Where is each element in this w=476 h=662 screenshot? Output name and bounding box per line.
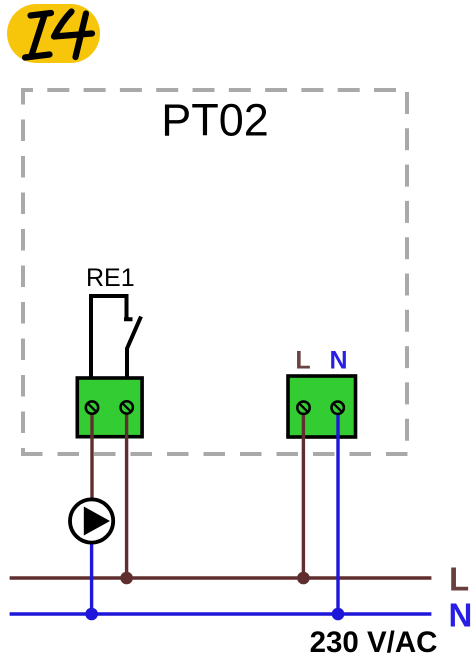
svg-text:N: N [329,347,347,375]
dashed module boundary box PT02 (top edge) [21,88,409,92]
label L (mains line) [449,561,469,598]
wire right terminal L to L line (brown) [302,408,305,578]
L supply line (brown) [10,576,432,579]
wire pump to N line (blue) [90,540,93,614]
svg-text:PT02: PT02 [161,95,269,146]
wire right terminal N to N line (blue) [336,408,339,614]
wire relay terminal 2 to L line (brown) [125,408,128,578]
junction dot right terminal L wire on L line [297,572,310,585]
screw terminal X2-N [332,402,344,414]
svg-text:230 V/AC: 230 V/AC [310,626,438,657]
wire relay terminal 1 to pump (brown) [90,408,93,501]
pump M1 (circle with triangle) [70,499,113,542]
svg-text:RE1: RE1 [86,264,135,292]
junction dot relay wire on L line [120,572,133,585]
svg-text:N: N [449,597,473,634]
label 230 V/AC [310,626,438,659]
label RE1 [86,264,135,292]
screw terminal X1-1 [86,401,98,413]
terminal block X1 (relay output, green) [77,378,142,437]
N supply line (blue) [10,612,432,615]
screw terminal X1-2 [121,401,133,413]
screw terminal X2-L [297,402,309,414]
junction dot pump wire on N line [85,608,98,621]
svg-text:L: L [295,347,310,375]
svg-text:L: L [449,561,469,598]
label L (terminal X2) [295,347,310,375]
relay RE1 switch symbol [91,296,141,378]
label N (terminal X2) [329,347,347,375]
dashed module boundary box PT02 (left edge) [21,88,25,454]
dashed module boundary box PT02 (right edge) [405,92,409,454]
badge I4 [7,4,100,63]
junction dot right terminal N wire on N line [332,608,345,621]
terminal block X2 (mains input, green) [288,376,356,437]
dashed module boundary box PT02 (bottom edge) [21,452,409,456]
label N (mains line) [449,597,473,634]
label PT02 [161,95,269,146]
